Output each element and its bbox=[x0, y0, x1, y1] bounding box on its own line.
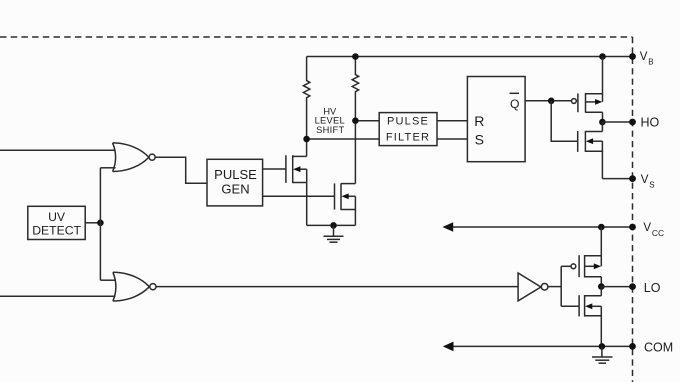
label: HV LEVEL SHIFT bbox=[315, 107, 345, 135]
NOR gate U2 (lower) bbox=[113, 272, 156, 301]
node: Q3 source junction on VB rail bbox=[599, 53, 606, 60]
wire: R1 junction to PULSE FILTER (S path) bbox=[307, 138, 380, 140]
svg-text:R: R bbox=[474, 113, 484, 129]
svg-text:DETECT: DETECT bbox=[32, 224, 81, 238]
wire: PULSE GEN lower output to Q2 gate bbox=[263, 195, 335, 197]
pin LO bbox=[629, 283, 636, 290]
svg-text:PULSE: PULSE bbox=[387, 116, 429, 128]
wire: filter to latch S input bbox=[437, 138, 467, 140]
wire: NOR2 output to inverter bbox=[156, 286, 518, 288]
node: R2 top junction bbox=[352, 53, 359, 60]
wire: gate bus vertical bbox=[560, 266, 562, 306]
wire: latch Q output bbox=[525, 100, 571, 102]
IC boundary (dashed) top bbox=[0, 36, 633, 38]
wire: inverter output to gates bbox=[548, 286, 561, 288]
NOR gate U1 (upper) bbox=[113, 143, 156, 172]
node: R1 tap bbox=[303, 136, 310, 143]
wire: Q output down to Q4 gate bbox=[551, 101, 578, 141]
wire: upper input line (HIN) bbox=[0, 149, 115, 151]
wire: to Q6 gate bbox=[561, 305, 579, 307]
svg-text:S: S bbox=[649, 180, 654, 189]
node: COM junction bbox=[599, 343, 606, 350]
transistor Q1 (level-shift FET, left) bbox=[286, 155, 307, 225]
transistor Q4 (high-side N-FET) bbox=[578, 122, 603, 179]
wire: riser to NOR1 lower input bbox=[100, 167, 115, 169]
wire: UV DETECT output bbox=[85, 222, 100, 224]
wire: PULSE GEN upper output to Q1 gate bbox=[263, 168, 286, 170]
svg-text:B: B bbox=[648, 57, 653, 66]
node: HO junction bbox=[599, 119, 606, 126]
node: R2 tap bbox=[352, 117, 359, 124]
node: Q output junction bbox=[548, 98, 555, 105]
PULSE FILTER block bbox=[379, 113, 437, 146]
wire: LO bbox=[601, 286, 632, 288]
svg-text:PULSE: PULSE bbox=[214, 167, 257, 182]
gate bubble of Q5 bbox=[571, 264, 576, 269]
node: VCC junction bbox=[598, 224, 605, 231]
wire: COM rail bbox=[450, 345, 633, 347]
wire: VCC rail bbox=[450, 226, 633, 228]
wire: riser to NOR2 upper input bbox=[100, 279, 115, 281]
node: LO junction bbox=[598, 283, 605, 290]
node: source/ground junction bbox=[330, 222, 337, 229]
svg-text:SHIFT: SHIFT bbox=[316, 125, 344, 135]
wire: riser to both NOR gates bbox=[99, 168, 101, 280]
wire: VS bbox=[602, 178, 632, 180]
ground (level shifter) bbox=[324, 225, 344, 242]
resistor R1 (HV level shift, left) bbox=[303, 57, 309, 157]
wire: HO bbox=[602, 121, 632, 123]
svg-text:S: S bbox=[475, 132, 484, 148]
svg-text:Q: Q bbox=[510, 97, 519, 111]
pin VS bbox=[629, 175, 636, 182]
wire: NOR1 output to PULSE GEN bbox=[155, 157, 207, 183]
wire: common source rail to ground bbox=[307, 224, 356, 226]
svg-text:FILTER: FILTER bbox=[386, 132, 430, 144]
pin VB bbox=[629, 53, 636, 60]
wire: to Q5 gate bubble bbox=[561, 265, 571, 267]
svg-text:V: V bbox=[643, 222, 651, 234]
transistor Q6 (low-side N-FET) bbox=[579, 287, 601, 347]
wire: filter to latch R input bbox=[437, 120, 467, 122]
pin COM bbox=[629, 343, 636, 350]
pin VCC bbox=[629, 224, 636, 231]
wire: R2 junction to PULSE FILTER (R path) bbox=[355, 120, 379, 122]
resistor R2 (HV level shift, right) bbox=[352, 57, 358, 184]
arrow: COM to left bbox=[443, 342, 454, 352]
svg-text:HO: HO bbox=[641, 115, 660, 129]
UV DETECT block bbox=[28, 206, 85, 239]
transistor Q3 (high-side P-FET) bbox=[578, 57, 603, 123]
gate bubble of Q3 bbox=[572, 99, 577, 104]
node: UV detect junction bbox=[97, 220, 104, 227]
IC boundary (dashed) right bbox=[632, 37, 634, 382]
PULSE GEN block bbox=[207, 159, 263, 206]
svg-text:LO: LO bbox=[644, 281, 661, 295]
svg-text:CC: CC bbox=[652, 228, 664, 238]
svg-text:V: V bbox=[641, 174, 649, 186]
latch U3 (RS latch) bbox=[467, 77, 525, 162]
inverter U4 bbox=[518, 273, 548, 301]
transistor Q5 (low-side P-FET) bbox=[579, 227, 601, 287]
wire: lower input line (LIN) bbox=[0, 295, 115, 297]
transistor Q2 (level-shift FET, right) bbox=[335, 183, 356, 225]
svg-text:V: V bbox=[640, 51, 648, 63]
svg-text:LEVEL: LEVEL bbox=[315, 116, 345, 126]
ground (COM) bbox=[592, 346, 613, 363]
svg-text:UV: UV bbox=[48, 210, 66, 224]
svg-text:COM: COM bbox=[644, 340, 673, 354]
pin HO bbox=[629, 119, 636, 126]
svg-text:GEN: GEN bbox=[221, 181, 249, 196]
wire: VB top rail bbox=[307, 56, 633, 58]
arrow: VCC to left bbox=[443, 222, 454, 232]
